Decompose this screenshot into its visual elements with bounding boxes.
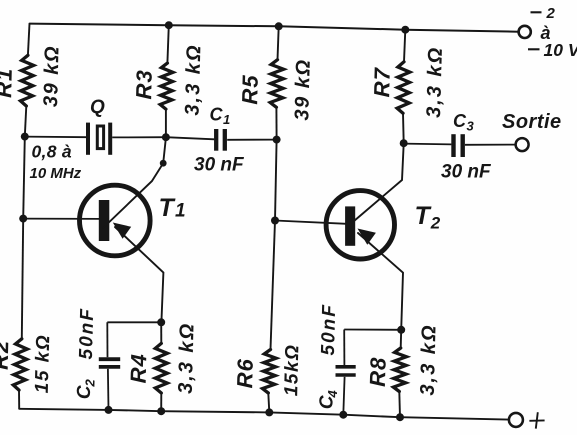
- label: 15 k&#937; (R2 value): [32, 334, 55, 394]
- wire: R6 bottom to ground rail: [268, 393, 269, 412]
- svg-text:4: 4: [325, 389, 340, 398]
- wire: left column (top rail to R1): [28, 24, 30, 56]
- wire: R2 bottom to ground rail: [18, 390, 20, 409]
- svg-text:Sortie: Sortie: [502, 111, 562, 133]
- label: 30 nF (C3 value): [441, 162, 492, 183]
- wire: R4 bottom lead: [160, 393, 162, 411]
- junction: T1 base node: [19, 215, 27, 223]
- svg-text:T2: T2: [415, 202, 441, 233]
- wire: C4 bottom lead: [343, 377, 344, 415]
- label: 50nF (C4 value): [318, 303, 340, 356]
- wire: T2 base node down to R6: [271, 221, 276, 350]
- label: Sortie: [502, 111, 562, 133]
- svg-text:R8: R8: [365, 356, 391, 387]
- junction: R4 on ground rail: [157, 407, 165, 415]
- wire: node A to crystal left plate: [25, 136, 86, 139]
- wire: top rail to R5: [278, 26, 279, 59]
- wire: crystal right plate to R3 node: [112, 136, 166, 138]
- label: a (grave): [541, 23, 552, 43]
- junction: C2 on ground rail: [105, 406, 113, 414]
- resistor R8: [393, 348, 406, 392]
- wire: left column (node A to T1 base node): [23, 137, 25, 219]
- svg-text:R2: R2: [0, 339, 13, 370]
- svg-text:T: T: [159, 194, 177, 222]
- wire: R5 bottom to C1 node: [275, 107, 277, 139]
- transistor T1 base bar: [99, 200, 110, 241]
- label: R3: [131, 69, 157, 100]
- capacitor C4: [336, 367, 356, 375]
- svg-text:30 nF: 30 nF: [194, 155, 245, 176]
- svg-text:50nF: 50nF: [76, 307, 98, 360]
- resistor R6: [263, 350, 277, 394]
- svg-text:1: 1: [175, 201, 186, 222]
- label: R5: [237, 74, 263, 105]
- resistor R5: [270, 60, 283, 108]
- svg-text:0,8 à: 0,8 à: [32, 142, 72, 162]
- svg-text:39 kΩ: 39 kΩ: [40, 45, 64, 108]
- transistor T1 body (circle): [80, 185, 151, 256]
- wire: node B to C1: [166, 137, 214, 139]
- label: 3,3 k&#937; (R4 value): [175, 322, 199, 395]
- label: C4: [316, 389, 340, 409]
- wire: T1 emitter lead: [115, 227, 163, 322]
- wire: T2 emitter node to C4: [344, 329, 401, 331]
- resistor R7: [397, 62, 410, 114]
- svg-text:R5: R5: [237, 74, 263, 105]
- label: 0,8 a (crystal freq): [32, 142, 72, 162]
- wire: left column (base node to R2): [22, 219, 23, 339]
- capacitor C1: [216, 129, 225, 151]
- wire: bottom ground rail: [19, 409, 508, 420]
- label: R8: [365, 356, 391, 387]
- svg-text:2: 2: [546, 5, 556, 22]
- svg-text:R4: R4: [126, 353, 152, 384]
- label: C3: [453, 111, 475, 134]
- svg-text:10 V: 10 V: [544, 40, 577, 60]
- label: C2: [74, 378, 98, 399]
- label: R6: [232, 358, 258, 389]
- wire: R4 top lead: [160, 322, 162, 343]
- junction: T1 emitter node: [157, 318, 165, 326]
- svg-text:50nF: 50nF: [318, 303, 340, 356]
- wire: C2 top lead: [106, 322, 108, 357]
- label: T1: [159, 194, 187, 222]
- svg-text:3,3 kΩ: 3,3 kΩ: [423, 46, 447, 119]
- terminal: Sortie (output): [516, 138, 529, 151]
- svg-text:39 kΩ: 39 kΩ: [291, 58, 315, 121]
- junction: T2 base node: [271, 217, 279, 225]
- svg-text:R7: R7: [369, 66, 395, 98]
- transistor T2 base bar: [345, 206, 355, 245]
- junction: R5 top on rail: [275, 22, 283, 30]
- svg-text:3,3 kΩ: 3,3 kΩ: [175, 322, 199, 395]
- wire: R7 bottom to node D: [402, 113, 405, 143]
- junction: node C (R5/C1/T2 base column): [273, 136, 281, 144]
- label: 10 MHz: [30, 165, 82, 182]
- resistor R4: [155, 343, 167, 393]
- svg-text:30 nF: 30 nF: [441, 162, 492, 183]
- label: C1: [210, 105, 231, 128]
- terminal: positive supply (+): [509, 413, 523, 427]
- label: 30 nF (C1 value): [194, 155, 245, 176]
- label: R1: [0, 67, 17, 98]
- junction: R3 top on rail: [165, 21, 173, 29]
- svg-text:C1: C1: [210, 105, 231, 128]
- wire: R1 bottom to crystal node: [25, 106, 27, 137]
- svg-text:3,3 kΩ: 3,3 kΩ: [182, 43, 206, 116]
- junction: C4 on ground rail: [339, 411, 347, 419]
- wire: top rail to R7: [404, 30, 405, 62]
- junction: node B (R3/Q/C1/T1 collector): [162, 133, 170, 141]
- junction: collector bend blob: [160, 160, 167, 167]
- label: -10 V: [528, 40, 577, 60]
- wire: T1 base lead: [23, 218, 99, 220]
- svg-text:R6: R6: [232, 358, 258, 389]
- svg-text:15kΩ: 15kΩ: [281, 343, 303, 396]
- label: 3,3 k&#937; (R7 value): [423, 46, 447, 119]
- crystal Q: [88, 123, 110, 155]
- svg-text:R1: R1: [0, 67, 17, 98]
- wire: C2 bottom lead: [107, 369, 110, 410]
- svg-text:Q: Q: [90, 97, 105, 118]
- label: R2: [0, 339, 13, 370]
- label: Q: [90, 97, 105, 118]
- transistor T2 emitter arrow: [358, 229, 376, 245]
- wire: C1 to middle column: [227, 139, 276, 141]
- label: 50nF (C2 value): [76, 307, 98, 360]
- wire: R8 bottom lead: [398, 392, 401, 418]
- junction: R7 top on rail: [401, 26, 409, 34]
- wire: C3 to output terminal: [465, 144, 515, 146]
- wire: R8 top lead: [400, 330, 403, 348]
- wire: T1 collector lead (to node B): [103, 138, 166, 228]
- wire: node C to T2 base node: [275, 140, 277, 221]
- junction: node A (R1/Q/left column): [21, 133, 29, 141]
- label: R4: [126, 353, 152, 384]
- svg-text:C3: C3: [453, 111, 475, 134]
- wire: R3 bottom to node B: [165, 109, 167, 137]
- transistor T1 emitter arrow: [113, 223, 131, 239]
- resistor R2: [13, 339, 27, 390]
- wire: top rail to R3: [167, 25, 168, 63]
- wire: T2 base lead: [275, 221, 347, 224]
- label: 3,3 k&#937; (R8 value): [417, 323, 441, 396]
- label: T2: [415, 202, 441, 233]
- junction: R6 on ground rail: [265, 408, 273, 416]
- resistor R3: [160, 63, 173, 109]
- junction: node D (R7/C3/T2 collector): [400, 139, 408, 147]
- terminal: negative supply (-2 a -10 V): [519, 26, 531, 38]
- junction: T2 emitter node: [397, 326, 405, 334]
- wire: node D to C3: [404, 143, 452, 146]
- wire: T2 collector lead (to node D): [354, 144, 404, 221]
- wire: T1 emitter node to C2: [107, 321, 161, 323]
- svg-text:R3: R3: [131, 69, 157, 100]
- label: -2: [531, 5, 556, 22]
- wire: C4 top lead: [343, 330, 345, 366]
- label: 15k&#937; (R6 value): [281, 343, 303, 396]
- wire: top supply rail: [30, 24, 519, 32]
- svg-text:10 MHz: 10 MHz: [30, 165, 82, 182]
- resistor R1: [21, 55, 34, 106]
- wire: T2 emitter lead: [358, 233, 403, 330]
- label: 39 k&#937; (R5 value): [291, 58, 315, 121]
- svg-text:2: 2: [82, 378, 97, 387]
- capacitor C3: [454, 134, 463, 157]
- label: +: [529, 412, 544, 428]
- svg-text:15 kΩ: 15 kΩ: [32, 334, 55, 394]
- label: 3,3 k&#937; (R3 value): [182, 43, 206, 116]
- svg-text:3,3 kΩ: 3,3 kΩ: [417, 323, 441, 396]
- junction: R8 on ground rail: [396, 413, 404, 421]
- label: 39 k&#937; (R1 value): [40, 45, 64, 108]
- transistor T2 body (circle): [326, 191, 394, 259]
- capacitor C2: [99, 359, 120, 367]
- label: R7: [369, 66, 395, 98]
